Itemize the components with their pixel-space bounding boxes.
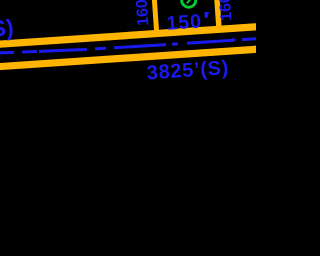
beacon tick [187, 0, 190, 3]
extension line B [215, 0, 219, 29]
centerline dash 4 [95, 47, 106, 51]
svg-text:160: 160 [134, 0, 153, 26]
centerline dash 8 [242, 37, 257, 41]
svg-text:5’(S): 5’(S) [0, 14, 14, 43]
centerline dash 3 [39, 49, 87, 51]
centerline dash 5 [114, 45, 166, 48]
svg-text:160: 160 [217, 0, 236, 21]
centerline arrow [232, 38, 237, 43]
svg-text:150: 150 [166, 10, 203, 34]
runway centerline dash 1 [0, 51, 14, 55]
runway bottom edge [0, 48, 273, 67]
centerline dash 6 [172, 42, 178, 45]
centerline dash 2 [22, 50, 37, 54]
extension line A [153, 0, 157, 34]
150 foot mark [204, 12, 209, 18]
runway group (tilted sketch) [0, 0, 275, 95]
centerline dash 7 [187, 40, 233, 43]
green beacon circle (cut at top) [182, 0, 196, 7]
runway top edge [0, 26, 271, 45]
